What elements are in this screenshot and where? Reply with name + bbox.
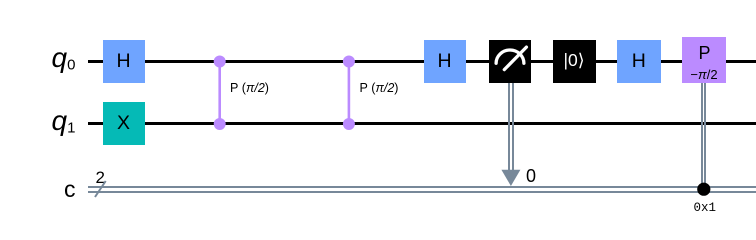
conditional phase gate P(-pi/2) on q0	[682, 37, 726, 83]
qubit label q1	[52, 107, 76, 136]
classical wire c (double line)	[88, 186, 756, 188]
wire q0	[88, 60, 756, 63]
CP1 label P (pi/2)	[230, 82, 269, 95]
qubit label q0	[52, 44, 76, 73]
gate X on q1	[103, 102, 145, 145]
classical register size label 2	[96, 169, 105, 186]
conditional double line from P down to c	[701, 83, 703, 190]
gate H1 on q0	[103, 40, 145, 83]
CP2 label P (pi/2)	[360, 82, 399, 95]
measurement target bit label 0	[526, 167, 536, 185]
gate H3 on q0	[617, 40, 661, 83]
measurement gate M on q0	[489, 40, 531, 83]
classical register label c	[64, 178, 76, 201]
condition value label 0x1	[694, 202, 717, 215]
wire q1	[88, 122, 756, 125]
measurement double line down to c	[508, 83, 510, 171]
reset gate |0> on q0	[553, 40, 596, 83]
gate H2 on q0	[424, 40, 466, 83]
